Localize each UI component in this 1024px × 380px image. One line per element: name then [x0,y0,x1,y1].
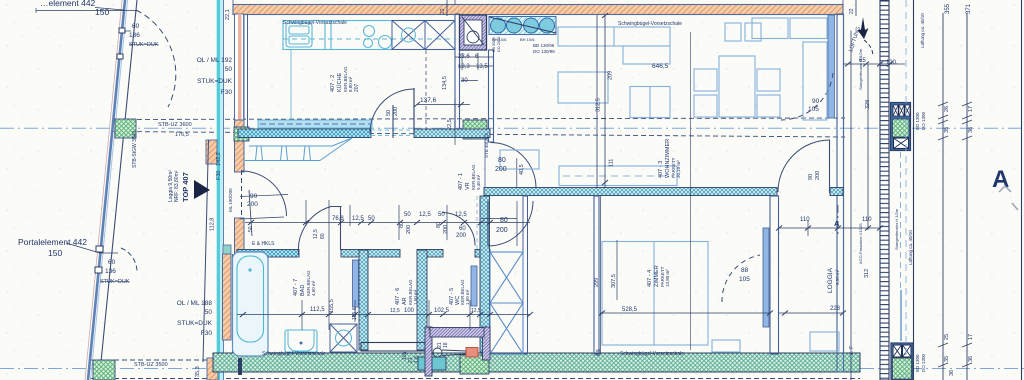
wire corridor east edge [484,134,486,187]
svg-text:200: 200 [496,227,508,234]
door entry arc [242,171,287,216]
dim kitchen 137,6 line [417,104,470,106]
svg-text:111: 111 [609,159,615,167]
svg-text:110: 110 [800,217,810,223]
node north triangle [194,180,210,199]
furniture sofa top long [558,27,670,46]
svg-text:30: 30 [461,78,468,84]
svg-text:STB-StGW 3540: STB-StGW 3540 [132,131,138,168]
dim left leader portalelement top [36,10,137,12]
svg-text:DO 130/96: DO 130/96 [533,49,555,54]
furniture nightstand bedroom [712,340,740,352]
dim diagonal ticks [240,13,893,317]
svg-text:…element 442: …element 442 [40,0,96,8]
svg-text:A: A [834,219,840,228]
svg-text:ML 190/200: ML 190/200 [228,188,233,212]
svg-text:DO 1300: DO 1300 [921,353,926,372]
svg-text:Stangenfenster H 1/2m: Stangenfenster H 1/2m [858,48,863,90]
door bad arc [298,207,331,258]
svg-text:328: 328 [865,100,871,109]
dim bedroom verticals [600,196,602,354]
svg-text:371: 371 [966,3,972,14]
wire vertical dashed blue right [905,0,907,380]
svg-text:BD 1300: BD 1300 [915,112,920,130]
node green junction box left [115,119,136,138]
svg-text:STB-UZ 3500: STB-UZ 3500 [134,362,168,368]
door loggia blue leaf [763,228,769,327]
furniture loggia box [810,332,839,351]
svg-text:17: 17 [968,106,974,112]
wall bedroom-loggia divider [770,196,779,354]
svg-text:OL / ML 192: OL / ML 192 [197,57,233,64]
svg-text:120.: 120. [886,60,898,66]
node shaft box right upper [891,103,911,151]
fixture kitchen counter south bar [258,120,372,128]
node teal box bottom bath [418,357,446,370]
wall bathroom left wall lower orange [223,254,232,340]
door bad leaf bar [353,260,359,307]
wall living south band teal [484,188,843,196]
svg-text:407 - 3: 407 - 3 [658,161,664,178]
svg-text:STB-UZ 3600: STB-UZ 3600 [158,122,192,128]
window blue bar east wall upper [828,15,835,118]
svg-text:88: 88 [741,267,749,274]
svg-text:BD 130/96: BD 130/96 [533,43,555,48]
wall wc vorwand purple U [425,327,432,376]
svg-text:80: 80 [399,222,405,228]
svg-text:299: 299 [594,278,600,287]
wall living west vertical [489,50,494,142]
svg-text:ACO-Fassrinne V100S: ACO-Fassrinne V100S [858,223,863,264]
wire riser dashed [476,196,478,250]
svg-text:105: 105 [808,106,819,113]
dim bath bottom row [237,314,530,316]
svg-text:112,5: 112,5 [310,307,325,313]
node connector squares on boundary [119,28,125,33]
svg-text:EB 5000: EB 5000 [492,37,496,52]
svg-text:100: 100 [404,308,415,314]
node appliance cyan band washers [489,17,556,35]
wall top exterior orange hatch [233,5,843,15]
node shaft middle X tall [490,252,523,354]
svg-text:136: 136 [129,32,140,39]
svg-text:200: 200 [406,225,412,234]
svg-text:12,5: 12,5 [455,212,467,218]
svg-text:200: 200 [495,166,507,173]
node green box bottom left site [93,360,115,380]
dim bedroom vertical through bed [690,32,692,350]
node axis horizontal main [0,128,1024,368]
dim vr top row [305,200,307,226]
node shaft box right lower [891,343,913,380]
svg-text:90: 90 [250,193,258,200]
dim top band ticks [446,0,448,16]
svg-text:200: 200 [456,233,467,239]
svg-text:23,6: 23,6 [458,54,470,60]
svg-text:12,5: 12,5 [419,212,431,218]
svg-text:150: 150 [95,7,109,17]
wire blue dashed shaft riser [900,152,902,288]
furniture sideboard bottom [559,166,677,186]
svg-text:35: 35 [944,127,950,133]
dim right vertical chains long [942,13,944,380]
wire cyan services line vertical [216,0,224,380]
svg-text:Schwingbügel-Vorsetzschale: Schwingbügel-Vorsetzschale [262,351,326,357]
svg-text:1,8: 1,8 [414,356,420,363]
svg-text:Schwingbügel-Vorsetzschale: Schwingbügel-Vorsetzschale [620,351,684,357]
svg-text:528,5: 528,5 [622,307,638,313]
furniture dining table [719,56,755,117]
svg-text:176,5: 176,5 [175,132,189,138]
svg-text:60: 60 [108,259,116,266]
svg-text:80: 80 [498,157,506,164]
wall east exterior double line [837,14,844,372]
svg-text:307,5: 307,5 [611,274,617,288]
svg-text:355: 355 [945,3,951,14]
wire portal element line [203,140,209,362]
furniture coffee table [630,87,670,118]
svg-text:1,50 m²: 1,50 m² [413,289,418,305]
door kitchen arc [370,89,414,133]
svg-text:22: 22 [849,8,855,14]
svg-text:105: 105 [739,276,750,283]
fixture shower drain square [330,324,357,352]
wall wc south dark [361,343,425,352]
door loggia from living arc [778,140,830,192]
svg-text:STUK=DUK: STUK=DUK [197,78,233,85]
wall bottom band teal hatch [213,353,860,372]
svg-text:407 - 4: 407 - 4 [647,270,653,287]
svg-text:200: 200 [443,225,449,234]
svg-text:50: 50 [225,66,233,73]
wall VR south band green [237,250,490,258]
door bedroom arc [488,201,533,246]
svg-text:36: 36 [968,356,974,362]
wall ar-wc divider vertical [417,250,427,350]
svg-text:8,5: 8,5 [596,349,602,356]
svg-text:DO 2000: DO 2000 [497,37,501,52]
svg-text:Schwingbügel-Vorsetzschale: Schwingbügel-Vorsetzschale [618,21,682,27]
svg-text:Lüftung ca. 40/10: Lüftung ca. 40/10 [920,13,925,48]
svg-text:Lüftung ca. 40/10: Lüftung ca. 40/10 [908,230,913,265]
svg-text:4,60 m²: 4,60 m² [311,280,316,296]
svg-text:Schwingbügel-Vorsatzschale: Schwingbügel-Vorsatzschale [283,20,347,26]
svg-text:200: 200 [815,171,821,180]
wall kitchen east vertical [455,14,460,130]
svg-text:40,5: 40,5 [519,164,525,175]
svg-text:76,8: 76,8 [332,216,344,222]
door living arc [491,143,537,189]
node green junction box kitchen east [463,120,487,139]
svg-text:Portalelement 442: Portalelement 442 [18,237,87,247]
svg-text:9,50 m²: 9,50 m² [835,269,840,285]
dim kitchen small cluster lines [455,56,493,58]
svg-text:17: 17 [968,334,974,340]
dim right top chain [850,31,852,380]
svg-text:13,5: 13,5 [476,64,488,70]
svg-text:407 - 1: 407 - 1 [458,173,464,190]
furniture armchair left [558,72,608,103]
svg-text:142,2: 142,2 [216,152,222,166]
svg-text:2. F: 2. F [849,345,855,355]
svg-text:35: 35 [944,356,950,362]
fixture bathtub [233,252,269,375]
svg-text:50: 50 [368,216,375,222]
fixture kitchen fridge box X [425,21,455,50]
svg-text:22: 22 [440,8,446,14]
svg-text:155,5: 155,5 [329,299,335,313]
svg-text:E & HKLS: E & HKLS [252,241,275,247]
svg-text:209: 209 [608,71,614,80]
svg-text:136: 136 [105,268,116,275]
svg-text:646,5: 646,5 [652,63,669,70]
svg-text:407 - 7: 407 - 7 [293,279,299,296]
svg-text:KÜCHE: KÜCHE [336,72,343,92]
svg-text:LOGGIA: LOGGIA [827,267,834,293]
door site gate dashed arc lower [121,248,137,273]
svg-text:12,5: 12,5 [352,216,364,222]
svg-text:9,40 m²: 9,40 m² [476,174,481,190]
svg-text:137,6: 137,6 [420,97,437,104]
svg-text:228: 228 [830,306,841,312]
svg-text:90: 90 [812,98,820,105]
fixture kitchen counter row [283,21,455,50]
fixture washbasin [285,330,317,352]
wall ladder hatch strip right [880,0,889,380]
svg-text:12,5: 12,5 [313,229,319,239]
svg-text:312,5: 312,5 [596,98,602,112]
svg-text:80: 80 [320,233,326,239]
svg-text:60: 60 [459,226,466,232]
svg-text:407 - 2: 407 - 2 [330,75,336,92]
wall bad-ar divider vertical [359,250,368,350]
node stove purple box [460,15,487,50]
svg-text:112,8: 112,8 [210,218,216,231]
svg-text:90: 90 [808,174,814,180]
svg-text:STUK=DUK: STUK=DUK [129,42,159,48]
svg-text:25: 25 [944,334,950,340]
svg-text:50: 50 [386,110,392,116]
node green junction box wall corner [234,127,249,141]
fixture kitchen hob box X [392,21,425,50]
svg-text:207: 207 [354,83,360,92]
dim ticks right chains [938,120,948,124]
svg-text:165,6: 165,6 [352,307,358,320]
svg-text:F30: F30 [201,330,213,337]
svg-text:200: 200 [247,201,258,208]
svg-text:50: 50 [248,226,254,232]
svg-text:12,5: 12,5 [390,308,400,314]
svg-text:1,60 m²: 1,60 m² [465,289,470,305]
wire site boundary second line [101,0,137,362]
svg-text:150: 150 [48,248,62,258]
node green box bottom WC [460,355,489,374]
svg-text:134,5: 134,5 [442,76,448,90]
svg-text:80: 80 [500,217,508,224]
svg-text:80: 80 [436,222,442,228]
svg-text:13,80 m²: 13,80 m² [665,269,670,287]
wall corridor-shaft east vertical [523,196,528,354]
svg-text:BD 1300: BD 1300 [915,354,920,372]
svg-text:STUK=DUK: STUK=DUK [100,279,130,285]
svg-text:50: 50 [205,309,213,316]
dim loggia 110 A 110 row [779,227,880,229]
wall left inner line kitchen [247,14,249,128]
svg-text:102,5: 102,5 [434,308,450,314]
svg-text:DO 1300: DO 1300 [921,111,926,130]
svg-text:12,5: 12,5 [471,308,481,314]
svg-text:OL / ML 188: OL / ML 188 [177,300,213,307]
svg-text:407 - 6: 407 - 6 [395,288,401,305]
svg-text:Loggia 9,50m²: Loggia 9,50m² [168,170,174,202]
svg-text:STB 40/20,5: STB 40/20,5 [484,132,489,158]
svg-text:50: 50 [404,212,411,218]
svg-text:35,3: 35,3 [195,366,201,377]
dim bedroom 528,5 [600,312,770,314]
furniture corner sofa right [752,18,788,39]
door loggia dashed arc [722,255,760,302]
door site gate dashed arc upper [136,10,176,107]
fixture toilet WC [433,348,478,358]
wall wc east vertical [480,196,490,352]
wall left exterior column orange [206,14,244,380]
wall VR north band cyan hatch [238,129,490,138]
svg-text:26: 26 [944,106,950,112]
door wc leaf bar [471,266,477,306]
svg-text:TOP 407: TOP 407 [181,172,190,202]
svg-text:18: 18 [443,342,449,348]
svg-text:60: 60 [132,23,140,30]
svg-text:110: 110 [862,217,872,223]
svg-text:312: 312 [864,269,870,278]
dim left leader 60 136 top [66,243,100,253]
svg-text:BH 10/6: BH 10/6 [520,37,535,42]
furniture bed bedroom [602,242,708,346]
dim living vertical chains [596,15,598,188]
svg-text:NRF: 83,80m²: NRF: 83,80m² [174,170,180,202]
wire blue line above lower shaft [900,290,902,341]
dim loggia 228 [779,312,843,314]
svg-text:Stangenfenster H 1/2m: Stangenfenster H 1/2m [894,208,899,250]
wall bedroom west vertical [594,196,599,354]
svg-text:13,3: 13,3 [458,64,470,70]
door window dashed arc upper [781,73,833,120]
svg-text:STUK=DUK: STUK=DUK [177,320,213,327]
svg-text:A: A [992,166,1009,193]
wire beam dashed top [90,118,860,379]
svg-text:22,5: 22,5 [447,119,453,130]
wire site boundary slanted double [85,0,137,380]
fixture kitchen west counter edge [290,50,292,120]
svg-text:8,80 m²: 8,80 m² [348,76,353,92]
svg-text:36: 36 [968,127,974,133]
svg-text:50: 50 [438,212,445,218]
door wc arc [442,213,475,246]
svg-text:36: 36 [949,370,955,376]
svg-text:F30: F30 [216,171,222,180]
svg-text:22,1: 22,1 [225,9,231,20]
svg-text:200: 200 [393,107,399,116]
svg-text:30,10 m²: 30,10 m² [676,160,681,178]
svg-text:F30: F30 [221,89,233,96]
